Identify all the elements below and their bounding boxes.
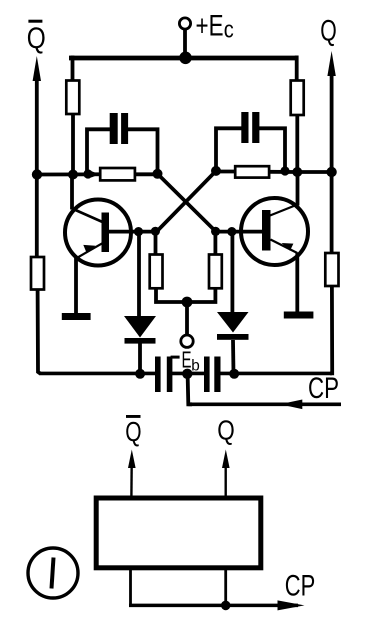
block flip-flop body <box>96 498 261 568</box>
transistor Q1 emitter wire <box>76 243 102 258</box>
capacitor C1 plates <box>110 113 118 144</box>
terminal +Ec <box>179 18 190 29</box>
wire block right lead down <box>224 570 227 605</box>
wire diagonal right node to left base <box>157 171 216 231</box>
junction dot trigger rail centre <box>182 369 192 379</box>
transistor Q1 circle <box>65 200 131 266</box>
resistor R8 right base bias <box>209 255 222 289</box>
wire right output rail lower with corner to trigger rail <box>330 286 332 373</box>
label Q-bar top <box>27 20 46 55</box>
wire right base node to R8 <box>213 231 217 255</box>
wire trigger rail middle segment <box>172 372 205 376</box>
arrow block Q output <box>222 450 230 469</box>
transistor Q2 circle <box>241 198 308 265</box>
label CP block <box>285 569 316 602</box>
svg-text:CP: CP <box>308 372 339 405</box>
label CP <box>308 372 339 405</box>
transistor Q2 emitter wire <box>271 240 298 254</box>
resistor R2 right collector load <box>291 81 304 116</box>
capacitor C4 trigger right <box>204 357 210 393</box>
capacitor C2 right speed-up: box left side <box>216 128 242 170</box>
wire R7 bottom corner to bias node <box>156 288 187 302</box>
wire left base node to R7 <box>154 231 158 255</box>
figure number 1 circled <box>28 548 78 598</box>
wire right output rail upper <box>330 69 334 254</box>
wire D1 to trigger rail <box>138 344 142 375</box>
wire from +Ec terminal to top rail <box>183 30 187 58</box>
transistor Q2 collector wire <box>270 205 298 216</box>
wire left output rail lower with corner to trigger rail <box>38 290 40 374</box>
arrowhead CP pointing left <box>280 400 303 410</box>
wire block CP line <box>129 604 298 608</box>
wire left diode tap down <box>137 232 141 317</box>
wire right corner to R2 <box>295 56 299 82</box>
junction dot bias node <box>182 297 193 308</box>
wire left rail to left collector node <box>37 172 89 176</box>
svg-text:CP: CP <box>285 569 316 602</box>
wire bias node to -Eb terminal <box>185 302 189 335</box>
capacitor C1 box right side <box>128 129 158 173</box>
transistor Q1 base wire <box>108 230 157 234</box>
wire top supply rail <box>69 56 299 61</box>
small arrowhead mark on left coupling lead <box>91 171 99 177</box>
diode D2 <box>217 312 249 333</box>
wire CP input line <box>188 402 341 406</box>
junction dot left base node <box>151 227 160 236</box>
svg-text:c: c <box>224 17 234 44</box>
wire C2 node to R4 <box>216 170 236 174</box>
svg-text:Q: Q <box>125 416 141 447</box>
arrow Q output <box>327 51 335 76</box>
svg-text:Q: Q <box>217 415 235 446</box>
capacitor C3 trigger left <box>155 357 161 393</box>
junction dot right collector node <box>292 167 302 177</box>
junction dot block CP <box>221 601 231 611</box>
transistor Q1 emitter arrow (PNP) <box>83 245 95 254</box>
transistor Q2 base bar <box>262 210 271 251</box>
wire R3 to node <box>135 172 158 176</box>
resistor R6 right output <box>325 253 338 286</box>
svg-text:+E: +E <box>196 10 224 43</box>
junction dot right base node <box>211 227 220 236</box>
wire D2 to trigger rail <box>231 340 235 374</box>
resistor R3 left coupling <box>100 168 135 180</box>
junction dot left base diode tap <box>134 227 143 236</box>
transistor Q1 base bar <box>102 213 110 253</box>
wire left corner to R1 <box>71 56 75 82</box>
junction dot trigger rail right diode <box>229 369 239 379</box>
junction dot C2 right bottom <box>280 166 289 175</box>
resistor R1 left collector load <box>66 81 79 115</box>
wire trigger rail left segment <box>39 372 156 376</box>
arrowhead block CP pointing right <box>278 600 305 610</box>
wire R2 bottom to right collector node <box>295 115 299 173</box>
diode D1 <box>124 316 156 338</box>
svg-text:Q: Q <box>320 15 337 48</box>
junction dot C1 left bottom <box>83 169 92 178</box>
wire right collector node to right rail <box>297 170 331 174</box>
transistor Q2 emitter arrow (PNP) <box>282 243 294 251</box>
transistor Q2 base wire <box>216 230 263 234</box>
junction dot trigger rail left diode <box>135 369 145 379</box>
wire centre tap down to CP line <box>188 374 192 405</box>
junction dot right base diode tap <box>227 227 236 236</box>
wire R4 to right collector node <box>269 170 297 174</box>
svg-text:Q: Q <box>27 22 46 55</box>
arrow block Q-bar output <box>128 450 136 469</box>
label Q top <box>320 15 337 48</box>
resistor R7 left base bias <box>150 255 163 289</box>
transistor Q1 collector wire <box>72 209 103 223</box>
label +Ec <box>196 10 234 44</box>
ground left emitter <box>62 313 91 320</box>
wire block left lead down <box>129 570 132 605</box>
wire diagonal left node to right base <box>158 174 216 232</box>
junction dot left collector node <box>68 170 78 180</box>
junction dot +Ec on top rail <box>179 52 192 65</box>
capacitor C2 box right side <box>259 128 285 170</box>
wire left output rail upper <box>35 74 39 258</box>
wire R1 bottom to left collector node <box>71 114 75 175</box>
resistor R5 left output <box>31 257 44 290</box>
ground right emitter <box>284 312 314 319</box>
label -Eb <box>171 347 200 375</box>
wire R8 bottom corner to bias node <box>187 288 215 302</box>
junction dot left coupling node <box>153 169 163 179</box>
capacitor C2 plates <box>241 112 248 143</box>
label Q block <box>217 415 235 446</box>
label Q-bar block <box>125 415 141 447</box>
capacitor C1 left speed-up: box left side <box>87 129 111 173</box>
junction dot right rail <box>326 167 336 177</box>
wire right diode tap down <box>230 232 234 313</box>
resistor R4 right coupling <box>235 166 269 177</box>
arrow Q-bar output <box>33 56 41 81</box>
wire C1 node to R3 <box>88 172 101 176</box>
terminal -Eb <box>181 335 193 347</box>
wire trigger rail right segment <box>221 372 333 376</box>
junction dot C2 left bottom <box>211 166 221 176</box>
junction dot left rail <box>32 169 42 179</box>
